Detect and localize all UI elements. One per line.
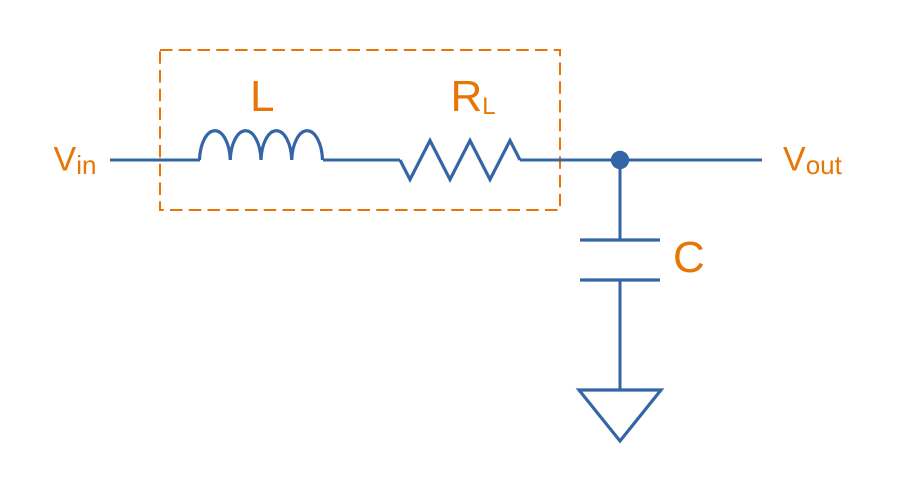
svg-text:C: C [673,233,705,282]
svg-text:Vin: Vin [54,141,97,181]
svg-text:RL: RL [451,72,496,121]
svg-text:Vout: Vout [783,141,843,181]
svg-text:L: L [250,72,274,121]
